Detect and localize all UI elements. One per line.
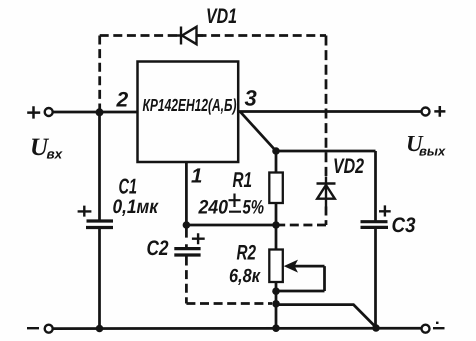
terminal output plus [422,106,446,117]
wire C1 branch lower [98,228,101,329]
junction R2 bottom rail [272,324,280,332]
label VD1 [207,9,236,23]
junction bottom left [96,325,104,333]
wire input to regulator [53,111,138,114]
label regulator type [143,98,236,114]
label Uвых [408,136,446,156]
resistor R1 [269,173,283,204]
wire R1 top lead [275,151,278,173]
label C3 [392,217,415,232]
wire dashed VD1 top right [198,34,327,37]
junction adjust node left [183,221,191,229]
junction adjust node right [272,221,280,229]
terminal input plus [27,106,53,118]
capacitor C2 [174,233,204,255]
wire ground return diagonal [276,305,375,327]
wire R1 bottom lead [275,203,278,225]
pin 1 label [191,168,201,182]
wire diagonal pin3 to node [240,112,276,152]
junction output node [272,147,280,155]
wire pin 1 lead [185,162,188,225]
capacitor C3 [361,205,391,227]
pin 2 label [116,92,128,107]
junction C2 return [272,300,280,308]
label C1 value [113,178,158,216]
wire output [238,110,421,113]
terminal output minus [422,323,445,333]
diode VD1 [176,27,203,45]
junction C3 bottom rail [372,324,380,332]
label Uвх [32,139,63,159]
wire R2 bottom lead [275,282,278,328]
label VD2 [334,158,364,173]
wire dashed VD1 left drop [98,36,101,113]
pin 3 label [245,90,257,106]
wire dashed VD2 lower [276,207,326,226]
junction wiper return [272,287,280,295]
wire C2 top lead [185,225,188,248]
wire C3 top lead [374,151,377,222]
wire dashed VD1 top left [100,34,180,37]
wire C2 dashed return [186,257,272,304]
resistor R2 variable [269,250,283,283]
terminal input minus [27,325,53,333]
junction input node [96,108,104,116]
label R2 value [230,245,261,285]
capacitor C1 [78,206,113,228]
label C2 [147,240,168,255]
label R1 value [198,172,263,213]
diode VD2 [317,177,336,207]
wire R2 top lead [275,225,278,250]
wire C1 branch upper [98,112,101,221]
wire adjust node [186,224,276,227]
wire dashed VD2 upper [325,36,328,177]
wiper arrow of R2 [276,260,325,291]
wire node to C3 column [276,150,376,153]
wire C3 bottom lead [374,227,377,328]
wire bottom rail [53,327,422,330]
op-amp U1 regulator box КР142ЕН12 [138,62,239,163]
